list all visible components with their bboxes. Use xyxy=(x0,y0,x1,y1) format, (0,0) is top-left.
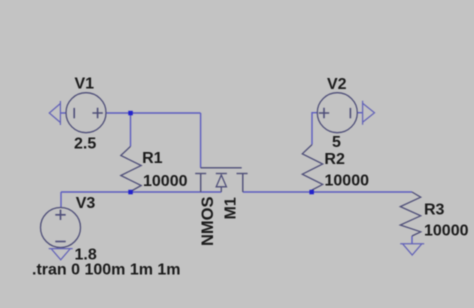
wire from V1 plus terminal to gate bend xyxy=(106,112,201,114)
nmos M1 xyxy=(195,168,247,192)
junction node R1 bottom on rail xyxy=(128,190,133,195)
spice directive .tran xyxy=(32,262,181,279)
junction node R2 bottom on rail xyxy=(309,190,314,195)
value 10000 (R2) xyxy=(325,173,370,190)
svg-text:V2: V2 xyxy=(327,76,347,93)
value 5 xyxy=(332,134,341,151)
voltage source V3 xyxy=(41,208,81,248)
svg-text:10000: 10000 xyxy=(424,222,469,239)
voltage source V2 xyxy=(317,93,357,133)
wire left rail (V3/source node) xyxy=(61,191,221,193)
ground (V1, pointing left) xyxy=(49,101,60,125)
wire V3 bottom stub to ground xyxy=(60,247,62,249)
svg-text:V1: V1 xyxy=(75,76,95,93)
ground (R3, pointing down) xyxy=(400,244,424,255)
svg-text:R2: R2 xyxy=(324,151,345,168)
junction node V1/R1/gate xyxy=(128,111,133,116)
ground (V2, pointing right) xyxy=(363,101,375,125)
resistor R1 xyxy=(121,146,141,191)
wire gate feed vertical xyxy=(200,113,202,168)
wire V1 left stub to ground xyxy=(60,112,66,114)
label R2 xyxy=(324,151,345,168)
label R3 xyxy=(424,201,445,218)
svg-text:V3: V3 xyxy=(76,195,96,212)
svg-text:R3: R3 xyxy=(424,201,445,218)
ground (V3, pointing down) xyxy=(49,249,73,260)
svg-text:R1: R1 xyxy=(142,150,163,167)
svg-text:NMOS: NMOS xyxy=(199,197,217,247)
label V2 xyxy=(327,76,347,93)
value 10000 (R3) xyxy=(424,222,469,239)
label NMOS (rotated) xyxy=(199,197,217,247)
label V1 xyxy=(75,76,95,93)
wire V2 right stub to ground xyxy=(358,112,363,114)
svg-text:2.5: 2.5 xyxy=(74,136,96,153)
label M1 (rotated) xyxy=(223,197,240,219)
voltage source V1 xyxy=(66,93,106,133)
value 10000 (R1) xyxy=(143,173,188,190)
svg-text:10000: 10000 xyxy=(143,173,188,190)
wire R1 top lead from junction xyxy=(130,113,132,146)
svg-text:5: 5 xyxy=(332,134,341,151)
svg-text:.tran 0 100m 1m 1m: .tran 0 100m 1m 1m xyxy=(32,262,181,279)
label R1 xyxy=(142,150,163,167)
value 2.5 xyxy=(74,136,96,153)
wire V2 left terminal to R2 top xyxy=(312,113,317,145)
resistor R2 xyxy=(302,145,322,192)
value 1.8 xyxy=(75,247,97,264)
label V3 xyxy=(76,195,96,212)
wire V3 top lead xyxy=(60,192,62,208)
wire R3 bottom lead to ground xyxy=(411,236,413,244)
resistor R3 xyxy=(400,192,420,236)
wire right rail (drain node) xyxy=(243,191,412,193)
svg-text:M1: M1 xyxy=(223,197,240,219)
svg-text:10000: 10000 xyxy=(325,173,370,190)
